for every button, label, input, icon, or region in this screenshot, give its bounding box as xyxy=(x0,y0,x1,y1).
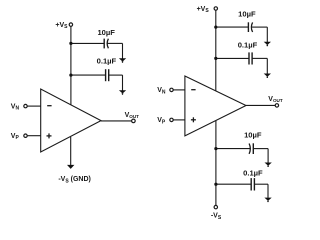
svg-text:10µF: 10µF xyxy=(244,130,262,139)
svg-text:0.1µF: 0.1µF xyxy=(238,41,258,50)
svg-text:VP: VP xyxy=(157,117,166,125)
svg-text:VOUT: VOUT xyxy=(125,112,140,119)
svg-text:-VS: -VS xyxy=(211,213,222,221)
svg-text:10µF: 10µF xyxy=(238,10,256,19)
svg-text:VN: VN xyxy=(11,103,20,111)
svg-text:-VS (GND): -VS (GND) xyxy=(58,176,91,184)
svg-text:+VS: +VS xyxy=(197,6,210,14)
svg-text:+VS: +VS xyxy=(55,22,68,30)
svg-text:VN: VN xyxy=(157,87,166,95)
svg-text:VOUT: VOUT xyxy=(268,96,283,103)
svg-text:10µF: 10µF xyxy=(97,28,115,37)
svg-text:VP: VP xyxy=(11,133,20,141)
svg-text:0.1µF: 0.1µF xyxy=(97,57,117,66)
svg-text:0.1µF: 0.1µF xyxy=(243,168,263,177)
